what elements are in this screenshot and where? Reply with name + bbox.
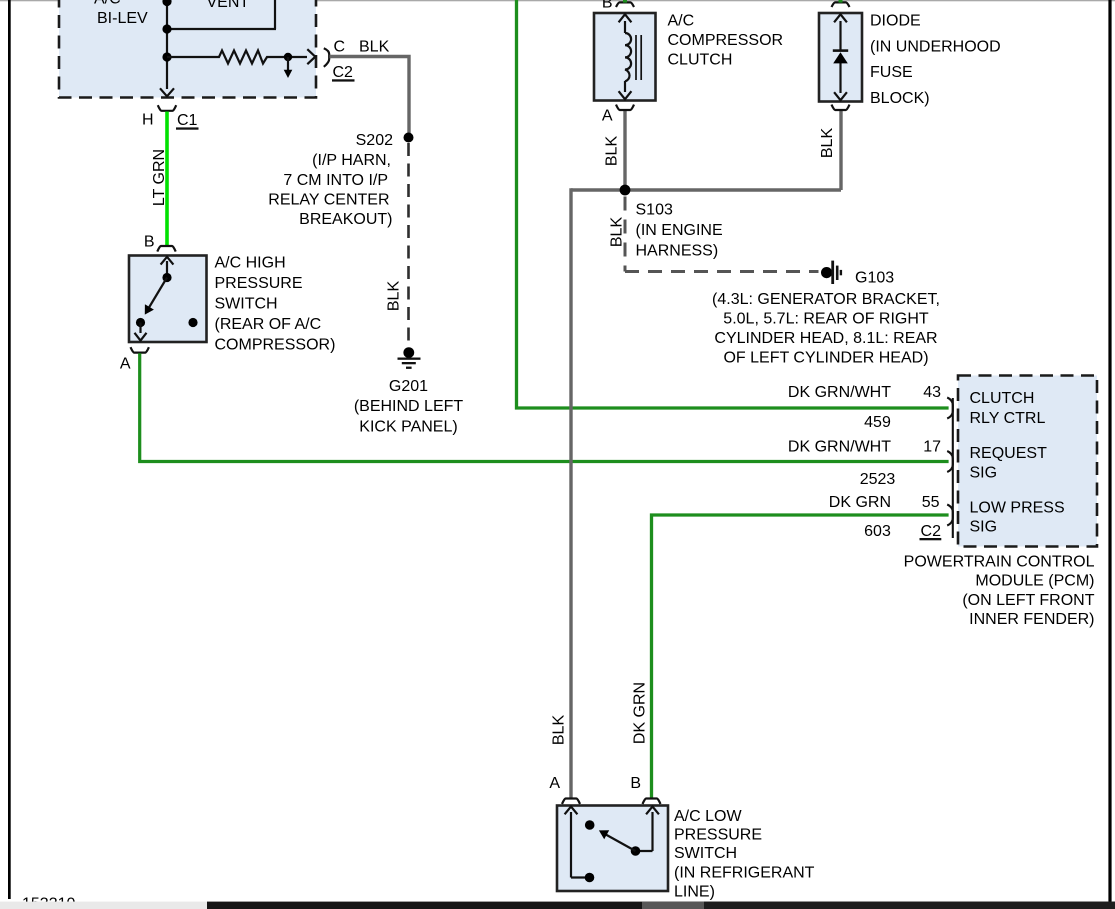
svg-text:459: 459 [864, 414, 891, 431]
svg-text:KICK PANEL): KICK PANEL) [359, 418, 457, 435]
svg-text:LINE): LINE) [674, 884, 715, 901]
svg-text:VENT: VENT [207, 0, 250, 11]
svg-text:LOW PRESS: LOW PRESS [970, 499, 1065, 516]
svg-text:COMPRESSOR: COMPRESSOR [668, 32, 784, 49]
svg-text:A: A [549, 775, 560, 792]
svg-text:OF LEFT CYLINDER HEAD): OF LEFT CYLINDER HEAD) [723, 350, 928, 367]
svg-text:43: 43 [923, 384, 941, 401]
svg-text:BLK: BLK [609, 217, 626, 248]
svg-text:A/C: A/C [668, 13, 695, 30]
svg-text:(I/P HARN,: (I/P HARN, [312, 152, 391, 169]
svg-text:S103: S103 [636, 202, 673, 219]
svg-text:BI-LEV: BI-LEV [97, 10, 148, 27]
svg-text:CLUTCH: CLUTCH [970, 390, 1035, 407]
svg-text:A/C HIGH: A/C HIGH [215, 255, 286, 272]
svg-text:MODULE (PCM): MODULE (PCM) [975, 573, 1094, 590]
svg-text:(BEHIND LEFT: (BEHIND LEFT [354, 398, 464, 415]
svg-text:BLK: BLK [551, 715, 568, 746]
svg-text:603: 603 [864, 523, 891, 540]
svg-text:A: A [602, 108, 613, 125]
svg-text:(4.3L: GENERATOR BRACKET,: (4.3L: GENERATOR BRACKET, [712, 291, 940, 308]
svg-text:LT GRN: LT GRN [151, 149, 168, 206]
svg-text:SWITCH: SWITCH [215, 295, 278, 312]
svg-text:BLK: BLK [359, 39, 390, 56]
svg-text:DK GRN/WHT: DK GRN/WHT [788, 439, 891, 456]
svg-text:55: 55 [922, 494, 940, 511]
svg-text:RLY CTRL: RLY CTRL [970, 410, 1046, 427]
svg-text:A/C: A/C [94, 0, 121, 8]
svg-text:SWITCH: SWITCH [674, 845, 737, 862]
svg-text:DIODE: DIODE [870, 13, 921, 30]
svg-text:H: H [142, 112, 154, 129]
svg-text:PRESSURE: PRESSURE [215, 275, 303, 292]
svg-text:7 CM INTO I/P: 7 CM INTO I/P [283, 172, 388, 189]
svg-text:(IN ENGINE: (IN ENGINE [636, 222, 723, 239]
svg-text:B: B [144, 234, 155, 251]
svg-text:BLK: BLK [819, 128, 836, 159]
svg-text:C2: C2 [333, 64, 354, 81]
svg-text:DK GRN: DK GRN [829, 494, 891, 511]
svg-text:BREAKOUT): BREAKOUT) [299, 211, 392, 228]
svg-text:A/C LOW: A/C LOW [674, 808, 742, 825]
svg-text:PRESSURE: PRESSURE [674, 826, 762, 843]
svg-text:BLK: BLK [604, 136, 621, 167]
svg-text:C2: C2 [921, 523, 942, 540]
svg-text:17: 17 [923, 439, 941, 456]
svg-text:(REAR OF A/C: (REAR OF A/C [215, 316, 322, 333]
svg-text:BLK: BLK [386, 281, 403, 312]
svg-text:COMPRESSOR): COMPRESSOR) [215, 336, 336, 353]
svg-text:C1: C1 [177, 112, 198, 129]
svg-text:S202: S202 [356, 132, 393, 149]
svg-text:A: A [120, 356, 131, 373]
svg-text:(IN UNDERHOOD: (IN UNDERHOOD [870, 38, 1001, 55]
svg-text:BLOCK): BLOCK) [870, 90, 930, 107]
svg-text:FUSE: FUSE [870, 64, 913, 81]
svg-text:SIG: SIG [970, 464, 998, 481]
svg-text:B: B [602, 0, 613, 12]
svg-text:(ON LEFT FRONT: (ON LEFT FRONT [962, 592, 1094, 609]
svg-text:(IN REFRIGERANT: (IN REFRIGERANT [674, 864, 815, 881]
svg-text:RELAY CENTER: RELAY CENTER [268, 191, 389, 208]
svg-text:G201: G201 [389, 378, 428, 395]
svg-text:CLUTCH: CLUTCH [668, 51, 733, 68]
svg-text:REQUEST: REQUEST [970, 445, 1048, 462]
svg-text:B: B [630, 775, 641, 792]
svg-text:2523: 2523 [860, 471, 896, 488]
svg-text:G103: G103 [855, 270, 894, 287]
svg-text:CYLINDER HEAD, 8.1L: REAR: CYLINDER HEAD, 8.1L: REAR [714, 330, 937, 347]
svg-text:DK GRN: DK GRN [632, 682, 649, 744]
svg-text:DK GRN/WHT: DK GRN/WHT [788, 384, 891, 401]
svg-text:POWERTRAIN CONTROL: POWERTRAIN CONTROL [904, 554, 1095, 571]
svg-text:SIG: SIG [970, 519, 998, 536]
svg-text:5.0L, 5.7L: REAR OF RIGHT: 5.0L, 5.7L: REAR OF RIGHT [723, 311, 929, 328]
svg-text:C: C [334, 39, 346, 56]
svg-text:INNER FENDER): INNER FENDER) [969, 611, 1094, 628]
svg-text:HARNESS): HARNESS) [636, 242, 719, 259]
